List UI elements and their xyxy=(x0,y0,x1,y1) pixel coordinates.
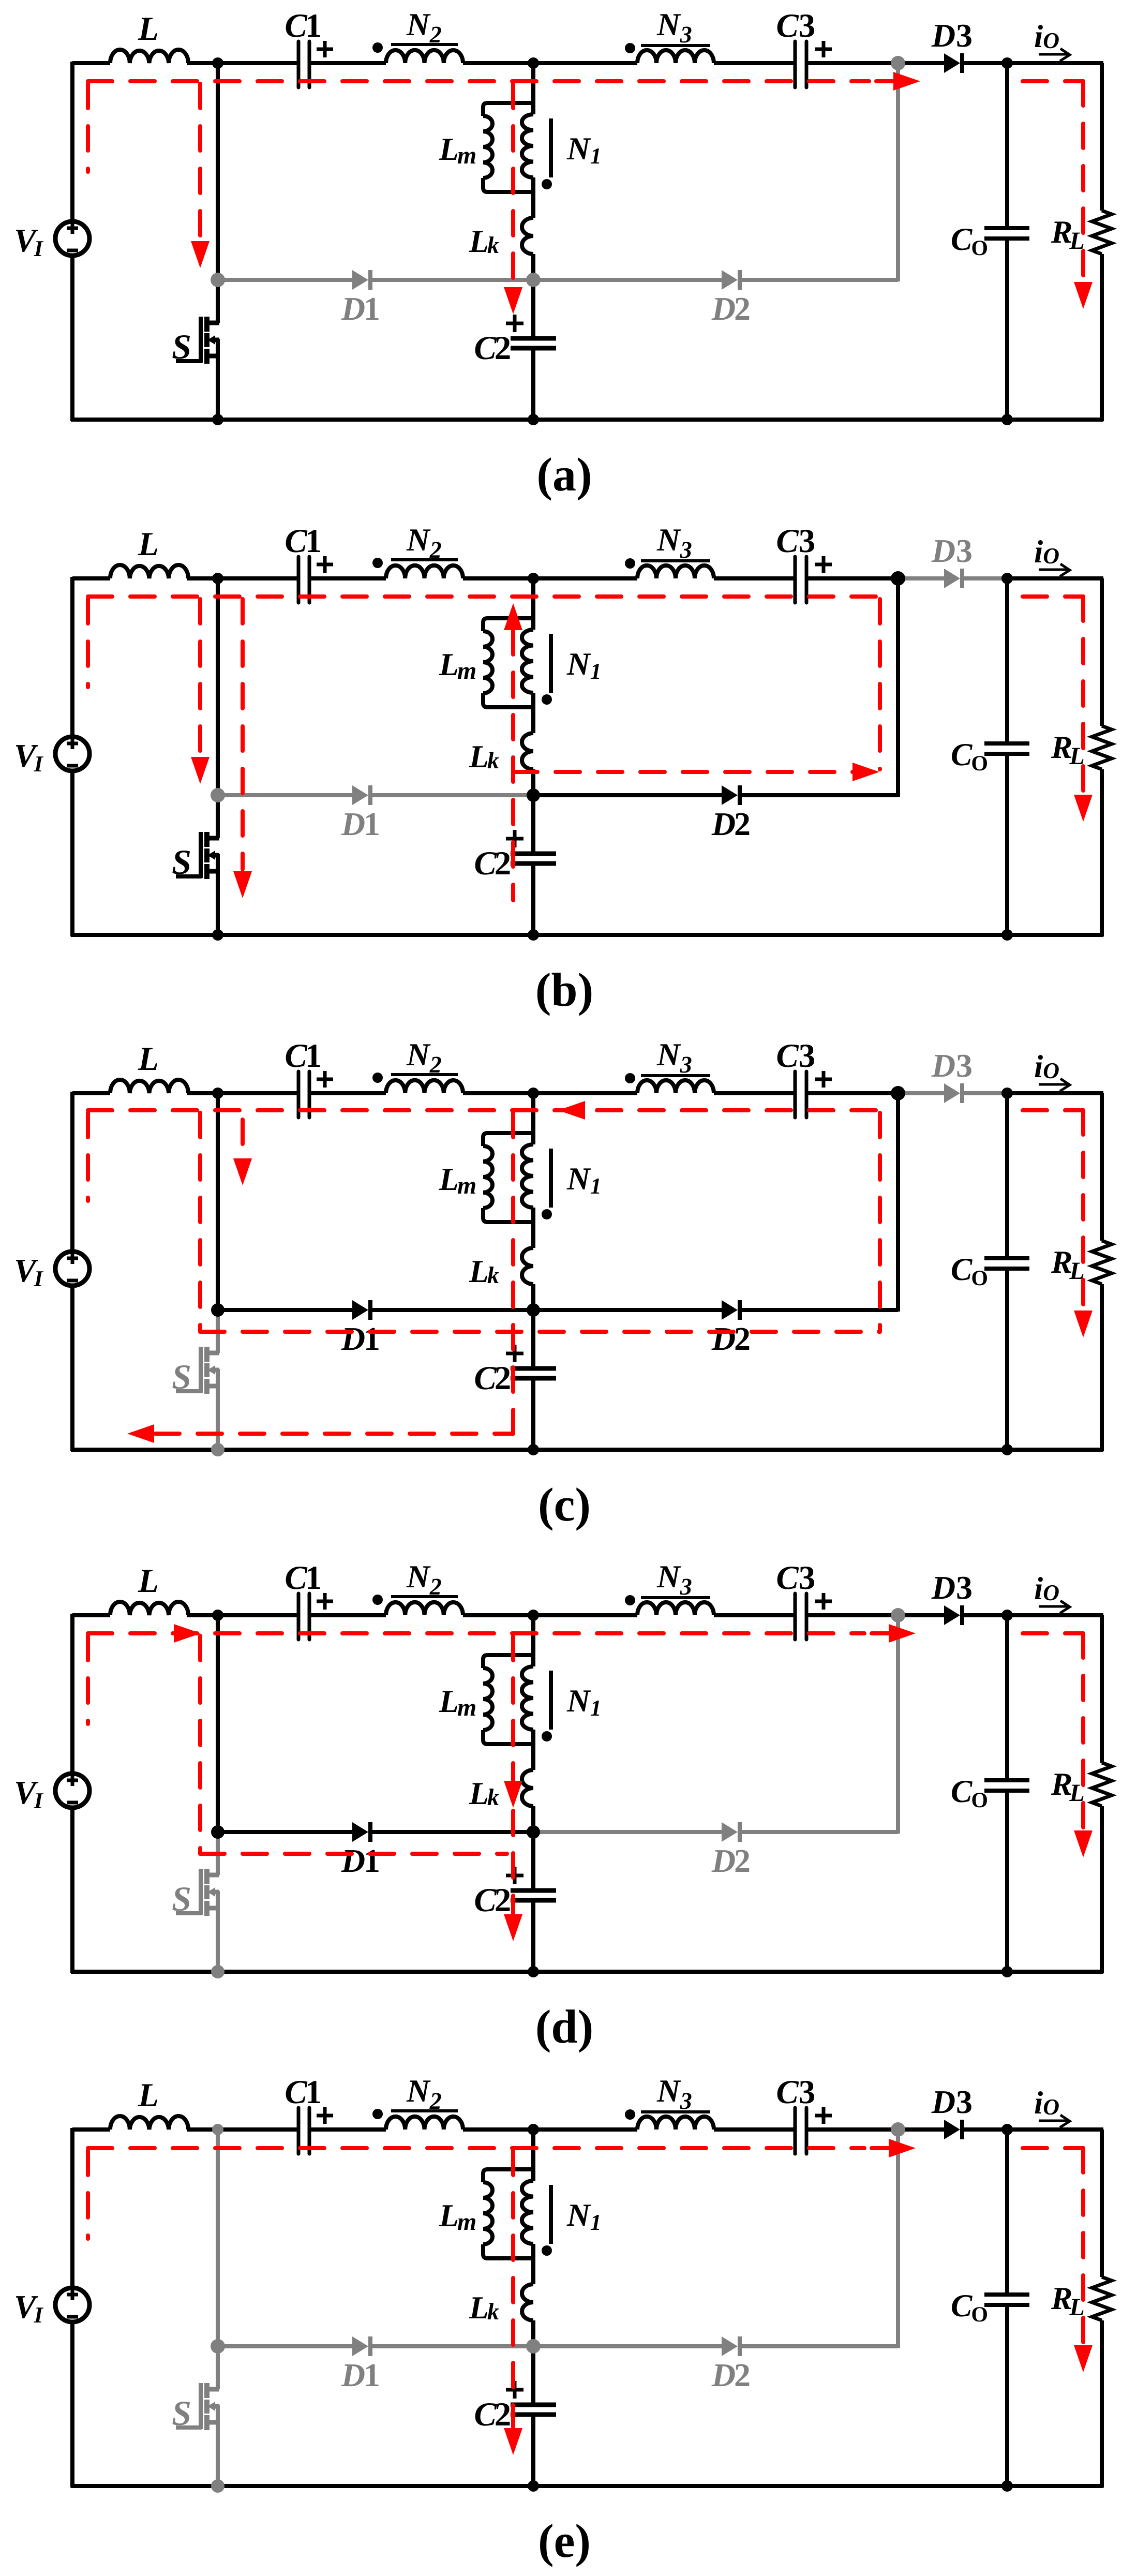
red path output loop horizontal (fig b) xyxy=(1023,594,1083,599)
wire node A to C1 (fig e) xyxy=(218,2127,298,2132)
wire center node to D2 (fig e) xyxy=(533,2344,722,2348)
polarity dot of N2 (fig c) xyxy=(372,1073,383,1083)
node A (fig e) xyxy=(212,2124,223,2135)
diode D2 (fig c) xyxy=(722,1300,738,1320)
wire top-left rail V_I to L (fig c) xyxy=(72,1091,110,1095)
core bar of N1 (fig c) xyxy=(549,1149,553,1208)
svg-text:C: C xyxy=(776,1037,799,1075)
wire D1 to center node (fig a) xyxy=(372,278,533,282)
arrow of i_O (fig e) xyxy=(1039,2120,1067,2122)
capacitor C2 (fig d) xyxy=(511,1888,556,1893)
wire N3 to C3 (fig e) xyxy=(714,2127,795,2132)
wire right rail top (fig a) xyxy=(1100,63,1104,211)
plus sign of C1 (fig d) xyxy=(317,1600,333,1603)
wire V_I to bottom-left corner (fig b) xyxy=(70,771,74,936)
transistor S MOSFET (fig b) xyxy=(206,836,219,841)
winding N2 (fig d) xyxy=(386,1602,463,1615)
wire C1 to N2 (fig b) xyxy=(309,576,386,580)
inductor Lk leakage (fig e) xyxy=(522,2284,533,2320)
svg-text:3: 3 xyxy=(956,1047,973,1084)
red arrow down at load (fig a) xyxy=(1074,282,1093,309)
node top junction D3 riser (fig e) xyxy=(891,2122,905,2137)
red arrow down at node A branch (fig b) xyxy=(191,757,210,784)
wire right rail top (fig d) xyxy=(1100,1615,1104,1763)
inductor L (fig b) xyxy=(110,565,188,578)
wire C2 to bottom rail (fig b) xyxy=(531,866,535,935)
wire right rail bottom (fig a) xyxy=(1100,254,1104,421)
wire N3 to C3 (fig a) xyxy=(714,61,795,65)
svg-text:3: 3 xyxy=(956,1569,973,1606)
svg-text:(b): (b) xyxy=(535,963,593,1016)
wire C3 to D3 junction (fig c) xyxy=(806,1091,898,1095)
svg-text:1: 1 xyxy=(364,1320,380,1357)
red path vertical through transformer (fig b) xyxy=(511,630,515,900)
red path loop right vertical (fig c) xyxy=(878,1113,882,1332)
node bottom C_O (fig d) xyxy=(1001,1966,1013,1977)
wire C3 to D3 junction (fig e) xyxy=(806,2127,898,2132)
node bottom C2 (fig a) xyxy=(528,414,539,425)
svg-text:S: S xyxy=(172,2393,191,2433)
plus sign of C1 (fig e) xyxy=(317,2114,333,2118)
svg-text:2: 2 xyxy=(734,806,751,842)
svg-text:C: C xyxy=(285,7,307,44)
svg-text:C: C xyxy=(285,1559,307,1597)
svg-text:D: D xyxy=(711,2357,736,2393)
wire node C to top-right corner (fig d) xyxy=(1007,1613,1103,1617)
node B (fig a) xyxy=(528,57,539,69)
wire node A down to switch branch (fig b) xyxy=(216,578,220,795)
svg-text:(a): (a) xyxy=(536,448,592,501)
red path output loop vertical (fig e) xyxy=(1081,2148,1085,2347)
wire D2 to riser (fig e) xyxy=(741,2344,898,2348)
wire C2 to bottom rail (fig d) xyxy=(531,1902,535,1972)
svg-text:C: C xyxy=(474,2396,497,2433)
red path vertical through transformer (fig e) xyxy=(511,2151,515,2429)
red path bottom horizontal return (fig c) xyxy=(155,1432,513,1436)
svg-text:C: C xyxy=(285,523,307,560)
red path main horizontal (fig d) xyxy=(88,1631,864,1635)
red arrow left on main horizontal (fig c) xyxy=(558,1101,585,1120)
red path vertical at node A (fig d) xyxy=(198,1636,202,1854)
node C (fig c) xyxy=(1001,1088,1013,1099)
red path output loop horizontal (fig d) xyxy=(1023,1631,1083,1635)
plus sign of C1 (fig c) xyxy=(317,1078,333,1081)
wire bottom rail (fig a) xyxy=(71,418,1103,422)
wire top-left rail V_I to L (fig a) xyxy=(72,61,110,65)
wire C_O to bottom rail (fig a) xyxy=(1005,239,1009,420)
wire L to node A (fig b) xyxy=(187,576,218,580)
red path output loop vertical (fig c) xyxy=(1081,1110,1085,1312)
capacitor C1 (fig b) xyxy=(297,557,301,603)
wire C_O to bottom rail (fig d) xyxy=(1005,1791,1009,1972)
svg-text:C: C xyxy=(285,2074,307,2111)
wire node B down to Lm loop (fig b) xyxy=(531,578,535,630)
plus sign of C3 (fig a) xyxy=(815,48,832,51)
red path loop bottom horizontal (fig b) xyxy=(513,770,854,774)
diode D2 (fig d) xyxy=(722,1822,738,1842)
svg-text:L: L xyxy=(138,10,159,48)
svg-text:C: C xyxy=(776,523,799,560)
polarity dot of N3 (fig e) xyxy=(625,2109,635,2120)
node B (fig b) xyxy=(528,573,539,584)
wire right rail top (fig c) xyxy=(1100,1093,1104,1241)
svg-text:1: 1 xyxy=(305,1559,322,1597)
wire L to node A (fig a) xyxy=(187,61,218,65)
wire D2 to riser (fig b) xyxy=(741,793,898,797)
svg-text:1: 1 xyxy=(364,806,380,842)
inductor Lm magnetizing (fig a) xyxy=(483,103,533,116)
inductor Lm magnetizing (fig c) xyxy=(483,1133,533,1146)
polarity dot of N2 (fig e) xyxy=(372,2109,383,2119)
wire and diode D3 (fig b) xyxy=(898,576,944,580)
node C (fig b) xyxy=(1001,573,1013,584)
wire node B to N3 (fig c) xyxy=(533,1091,637,1095)
red path main horizontal (fig a) xyxy=(88,79,869,83)
wire switch to bottom rail (fig e) xyxy=(216,2405,220,2486)
wire right rail bottom (fig b) xyxy=(1100,769,1104,936)
core bar of N1 (fig d) xyxy=(549,1671,553,1730)
svg-text:(d): (d) xyxy=(535,2000,593,2053)
red arrow down into C2 (fig a) xyxy=(504,287,522,314)
transistor S MOSFET (fig d) xyxy=(206,1873,219,1878)
svg-text:D: D xyxy=(711,290,736,327)
svg-text:1: 1 xyxy=(305,1037,322,1075)
node C (fig e) xyxy=(1001,2124,1013,2135)
diode D2 (fig a) xyxy=(722,270,738,290)
svg-text:D: D xyxy=(931,1047,955,1084)
node bottom switch (fig a) xyxy=(212,414,223,425)
wire node B to N3 (fig e) xyxy=(533,2127,637,2132)
node bottom C_O (fig e) xyxy=(1001,2480,1013,2492)
node bottom C_O (fig c) xyxy=(1001,1444,1013,1455)
wire N3 to C3 (fig c) xyxy=(714,1091,795,1095)
plus sign of C3 (fig b) xyxy=(815,563,832,567)
capacitor C_O (fig b) xyxy=(984,741,1029,746)
wire bottom rail (fig e) xyxy=(71,2484,1103,2488)
wire node B to N3 (fig d) xyxy=(533,1613,637,1617)
svg-text:1: 1 xyxy=(305,7,322,44)
polarity dot of N1 (fig b) xyxy=(542,694,552,705)
wire C2 to bottom rail (fig a) xyxy=(531,350,535,420)
winding N1 (fig c) xyxy=(522,1144,533,1208)
inductor Lk leakage (fig d) xyxy=(522,1770,533,1806)
wire top-left rail V_I to L (fig e) xyxy=(72,2127,110,2132)
wire and diode D3 (fig d) xyxy=(898,1613,944,1617)
red path middle horizontal below D1 (fig d) xyxy=(200,1852,507,1856)
svg-text:C: C xyxy=(776,2074,799,2111)
svg-text:1: 1 xyxy=(305,2074,322,2111)
inductor L (fig e) xyxy=(110,2116,188,2130)
capacitor C1 (fig d) xyxy=(297,1594,301,1640)
capacitor C3 (fig d) xyxy=(794,1594,797,1640)
voltage source V_I (fig c) xyxy=(55,1252,89,1286)
wire Lk to center node (fig d) xyxy=(531,1806,535,1832)
wire L to node A (fig c) xyxy=(187,1091,218,1095)
svg-text:C: C xyxy=(474,330,497,367)
svg-text:3: 3 xyxy=(956,532,973,569)
transistor S MOSFET (fig a) xyxy=(206,321,219,325)
wire node C down to C_O (fig c) xyxy=(1005,1093,1009,1258)
red path middle horizontal below D1 (fig c) xyxy=(200,1330,880,1334)
wire node C to top-right corner (fig a) xyxy=(1007,61,1103,65)
wire node A to C1 (fig a) xyxy=(218,61,298,65)
node center transformer-C2 junction (fig b) xyxy=(527,788,540,802)
wire C1 to N2 (fig e) xyxy=(309,2127,386,2132)
svg-text:L: L xyxy=(138,2077,159,2114)
svg-text:2: 2 xyxy=(734,290,751,327)
wire C_O to bottom rail (fig b) xyxy=(1005,754,1009,935)
polarity dot of N1 (fig c) xyxy=(542,1209,552,1219)
plus sign of C2 (fig b) xyxy=(506,837,523,841)
red path output loop vertical (fig b) xyxy=(1081,597,1085,796)
svg-text:D: D xyxy=(931,17,955,54)
capacitor C_O (fig a) xyxy=(984,226,1029,230)
wire N1 to Lk (fig b) xyxy=(531,693,535,733)
svg-text:L: L xyxy=(138,526,159,563)
voltage source V_I (fig b) xyxy=(55,737,89,771)
red path main horizontal (fig b) xyxy=(88,594,880,599)
svg-text:S: S xyxy=(172,327,191,366)
wire center node to D2 (fig b) xyxy=(533,793,722,797)
winding N3 (fig c) xyxy=(637,1080,714,1093)
svg-text:D: D xyxy=(931,1569,955,1606)
node top junction D3 riser (fig d) xyxy=(891,1608,905,1622)
red path left vertical at source (fig d) xyxy=(86,1636,90,1724)
svg-text:C: C xyxy=(474,1360,497,1397)
wire node A down to switch branch (fig a) xyxy=(216,63,220,280)
diode D1 (fig a) xyxy=(352,270,368,290)
svg-text:C: C xyxy=(776,7,799,44)
node bottom switch (fig e) xyxy=(211,2479,225,2493)
plus sign of C2 (fig a) xyxy=(506,322,523,325)
plus sign of C1 (fig a) xyxy=(317,48,333,51)
svg-text:3: 3 xyxy=(799,7,816,44)
wire D2 to riser (fig a) xyxy=(741,278,898,282)
node switch-D1 junction (fig b) xyxy=(211,788,225,802)
capacitor C2 (fig b) xyxy=(511,852,556,856)
resistor R_L (fig d) xyxy=(1092,1763,1112,1806)
svg-text:3: 3 xyxy=(799,1559,816,1597)
arrow of i_O (fig b) xyxy=(1039,569,1067,571)
wire node A down to switch branch (fig c) xyxy=(216,1093,220,1310)
inductor Lk leakage (fig a) xyxy=(522,218,533,254)
svg-text:D: D xyxy=(341,1842,365,1879)
winding N1 (fig d) xyxy=(522,1666,533,1730)
inductor Lk leakage (fig b) xyxy=(522,733,533,769)
red path vertical through transformer (fig a) xyxy=(511,84,515,289)
wire node A-mid to D1 (fig b) xyxy=(218,793,352,797)
diode D2 (fig b) xyxy=(722,785,738,805)
wire riser D2 up to top junction (fig e) xyxy=(896,2130,900,2348)
wire node A-mid to D1 (fig d) xyxy=(218,1830,352,1834)
red path left vertical at source (fig e) xyxy=(86,2151,90,2239)
svg-text:1: 1 xyxy=(305,523,322,560)
red path output loop horizontal (fig e) xyxy=(1023,2146,1083,2150)
svg-text:3: 3 xyxy=(799,1037,816,1075)
wire D2 to riser (fig c) xyxy=(741,1308,898,1312)
core bar of N1 (fig e) xyxy=(549,2185,553,2244)
red arrow right before D3 (fig e) xyxy=(889,2139,916,2157)
capacitor C1 (fig c) xyxy=(297,1071,301,1118)
wire node C down to C_O (fig e) xyxy=(1005,2130,1009,2294)
red path output loop horizontal (fig a) xyxy=(1023,79,1083,83)
node bottom switch (fig d) xyxy=(211,1965,225,1978)
capacitor C_O (fig e) xyxy=(984,2292,1029,2297)
node bottom switch (fig b) xyxy=(212,929,223,941)
node top junction D3 riser (fig b) xyxy=(891,571,905,586)
svg-text:2: 2 xyxy=(495,330,512,367)
node center transformer-C2 junction (fig e) xyxy=(526,2339,541,2354)
svg-text:2: 2 xyxy=(495,2396,512,2433)
wire D1 to center node (fig c) xyxy=(372,1308,533,1312)
node C (fig d) xyxy=(1001,1610,1013,1621)
svg-text:L: L xyxy=(138,1040,159,1078)
red path main horizontal (fig c) xyxy=(88,1108,880,1112)
voltage source V_I (fig e) xyxy=(55,2288,89,2322)
wire top-left rail V_I to L (fig b) xyxy=(72,576,110,580)
wire L to node A (fig e) xyxy=(187,2127,218,2132)
winding N2 (fig c) xyxy=(386,1080,463,1093)
wire node C down to C_O (fig a) xyxy=(1005,63,1009,228)
red arrow right on loop bottom (fig b) xyxy=(852,763,879,781)
winding N3 (fig a) xyxy=(637,50,714,63)
wire node B down to Lm loop (fig e) xyxy=(531,2130,535,2181)
diode D1 (fig e) xyxy=(352,2336,368,2356)
svg-text:C: C xyxy=(474,1882,497,1919)
wire node A to C1 (fig d) xyxy=(218,1613,298,1617)
wire D1 to center node (fig d) xyxy=(372,1830,533,1834)
wire N2 to node B (fig c) xyxy=(463,1091,533,1095)
wire C1 to N2 (fig a) xyxy=(309,61,386,65)
wire right rail bottom (fig c) xyxy=(1100,1284,1104,1451)
wire N1 to Lk (fig d) xyxy=(531,1730,535,1770)
svg-text:2: 2 xyxy=(495,1882,512,1919)
wire Lk to center node (fig a) xyxy=(531,254,535,280)
wire C2 to bottom rail (fig e) xyxy=(531,2417,535,2486)
red arrow down at Lk (fig d) xyxy=(504,1781,522,1808)
wire C1 to N2 (fig c) xyxy=(309,1091,386,1095)
wire node C to top-right corner (fig e) xyxy=(1007,2127,1103,2132)
node A (fig b) xyxy=(212,573,223,584)
svg-text:S: S xyxy=(172,1357,191,1396)
node top junction D3 riser (fig a) xyxy=(891,56,905,70)
svg-text:D: D xyxy=(711,1842,736,1879)
wire node B to N3 (fig b) xyxy=(533,576,637,580)
wire right rail top (fig e) xyxy=(1100,2130,1104,2277)
wire and diode D3 (fig c) xyxy=(898,1091,944,1095)
red path output loop vertical (fig d) xyxy=(1081,1633,1085,1832)
red path vertical at node A (fig c) xyxy=(198,1113,202,1332)
capacitor C_O (fig c) xyxy=(984,1256,1029,1260)
polarity dot of N1 (fig e) xyxy=(542,2245,552,2256)
transistor S MOSFET (fig e) xyxy=(206,2387,219,2392)
wire center node down to C2 (fig d) xyxy=(531,1832,535,1888)
wire right rail bottom (fig e) xyxy=(1100,2320,1104,2488)
red arrow down at load (fig d) xyxy=(1074,1830,1093,1857)
plus sign of C2 (fig c) xyxy=(506,1352,523,1356)
svg-text:1: 1 xyxy=(364,290,380,327)
wire right rail top (fig b) xyxy=(1100,578,1104,726)
polarity dot of N3 (fig c) xyxy=(625,1073,635,1083)
wire center node to D2 (fig d) xyxy=(533,1830,722,1834)
wire node A to C1 (fig b) xyxy=(218,576,298,580)
wire node B down to Lm loop (fig a) xyxy=(531,63,535,114)
winding N3 (fig e) xyxy=(637,2117,714,2130)
wire node A-mid to D1 (fig e) xyxy=(218,2344,352,2348)
resistor R_L (fig a) xyxy=(1092,211,1112,254)
polarity dot of N2 (fig a) xyxy=(372,42,383,53)
red arrow down below C2 (fig e) xyxy=(504,2428,522,2455)
svg-text:L: L xyxy=(138,1562,159,1600)
resistor R_L (fig c) xyxy=(1092,1241,1112,1284)
diode D1 (fig c) xyxy=(352,1300,368,1320)
wire V_I to bottom-left corner (fig a) xyxy=(70,256,74,421)
voltage source V_I (fig d) xyxy=(55,1774,89,1808)
wire N1 to Lk (fig e) xyxy=(531,2244,535,2284)
red arrow right before D3 (fig d) xyxy=(889,1624,916,1643)
node switch-D1 junction (fig e) xyxy=(211,2339,225,2354)
inductor Lk leakage (fig c) xyxy=(522,1248,533,1284)
svg-text:2: 2 xyxy=(734,2357,751,2393)
inductor L (fig a) xyxy=(110,50,188,63)
capacitor C2 (fig c) xyxy=(511,1366,556,1371)
red path vertical through transformer lower (fig d) xyxy=(511,1811,515,1914)
wire D1 to center node (fig b) xyxy=(372,793,533,797)
red path output loop horizontal (fig c) xyxy=(1023,1108,1083,1112)
wire node B down to Lm loop (fig c) xyxy=(531,1093,535,1144)
red path main horizontal (fig e) xyxy=(88,2146,864,2150)
red path left vertical at source (fig a) xyxy=(86,84,90,172)
wire center node down to C2 (fig b) xyxy=(531,795,535,852)
svg-text:C: C xyxy=(285,1037,307,1075)
wire C_O to bottom rail (fig e) xyxy=(1005,2305,1009,2486)
wire node C down to C_O (fig d) xyxy=(1005,1615,1009,1780)
diode D2 (fig e) xyxy=(722,2336,738,2356)
wire node A-mid to D1 (fig a) xyxy=(218,278,352,282)
svg-text:D: D xyxy=(931,2083,955,2120)
wire C3 to D3 junction (fig a) xyxy=(806,61,898,65)
wire V_I to bottom-left corner (fig e) xyxy=(70,2322,74,2488)
node B (fig d) xyxy=(528,1610,539,1621)
wire switch to bottom rail (fig b) xyxy=(216,854,220,935)
wire node A down to switch branch (fig e) xyxy=(216,2130,220,2346)
wire C1 to N2 (fig d) xyxy=(309,1613,386,1617)
wire bottom rail (fig b) xyxy=(71,933,1103,937)
wire and diode D3 (fig a) xyxy=(898,61,944,65)
inductor Lm magnetizing (fig b) xyxy=(483,618,533,631)
wire node A-mid to D1 (fig c) xyxy=(218,1308,352,1312)
plus sign of C2 (fig e) xyxy=(506,2388,523,2392)
arrow of i_O (fig c) xyxy=(1039,1083,1067,1086)
node A (fig c) xyxy=(212,1088,223,1099)
winding N2 (fig b) xyxy=(386,565,463,578)
red arrow down at switch (fig b) xyxy=(233,871,252,898)
svg-text:S: S xyxy=(172,1879,191,1918)
node switch-D1 junction (fig d) xyxy=(211,1825,225,1839)
node B (fig c) xyxy=(528,1088,539,1099)
svg-text:D: D xyxy=(711,1320,736,1357)
capacitor C3 (fig c) xyxy=(794,1071,797,1118)
voltage source V_I (fig a) xyxy=(55,221,89,256)
svg-text:2: 2 xyxy=(495,845,512,882)
wire C2 to bottom rail (fig c) xyxy=(531,1380,535,1450)
core bar of N1 (fig b) xyxy=(549,634,553,693)
wire top-left rail V_I to L (fig d) xyxy=(72,1613,110,1617)
wire N2 to node B (fig e) xyxy=(463,2127,533,2132)
red arrow right before D3 (fig a) xyxy=(893,72,920,91)
red path vertical through transformer upper (fig d) xyxy=(511,1636,515,1783)
node B (fig e) xyxy=(528,2124,539,2135)
